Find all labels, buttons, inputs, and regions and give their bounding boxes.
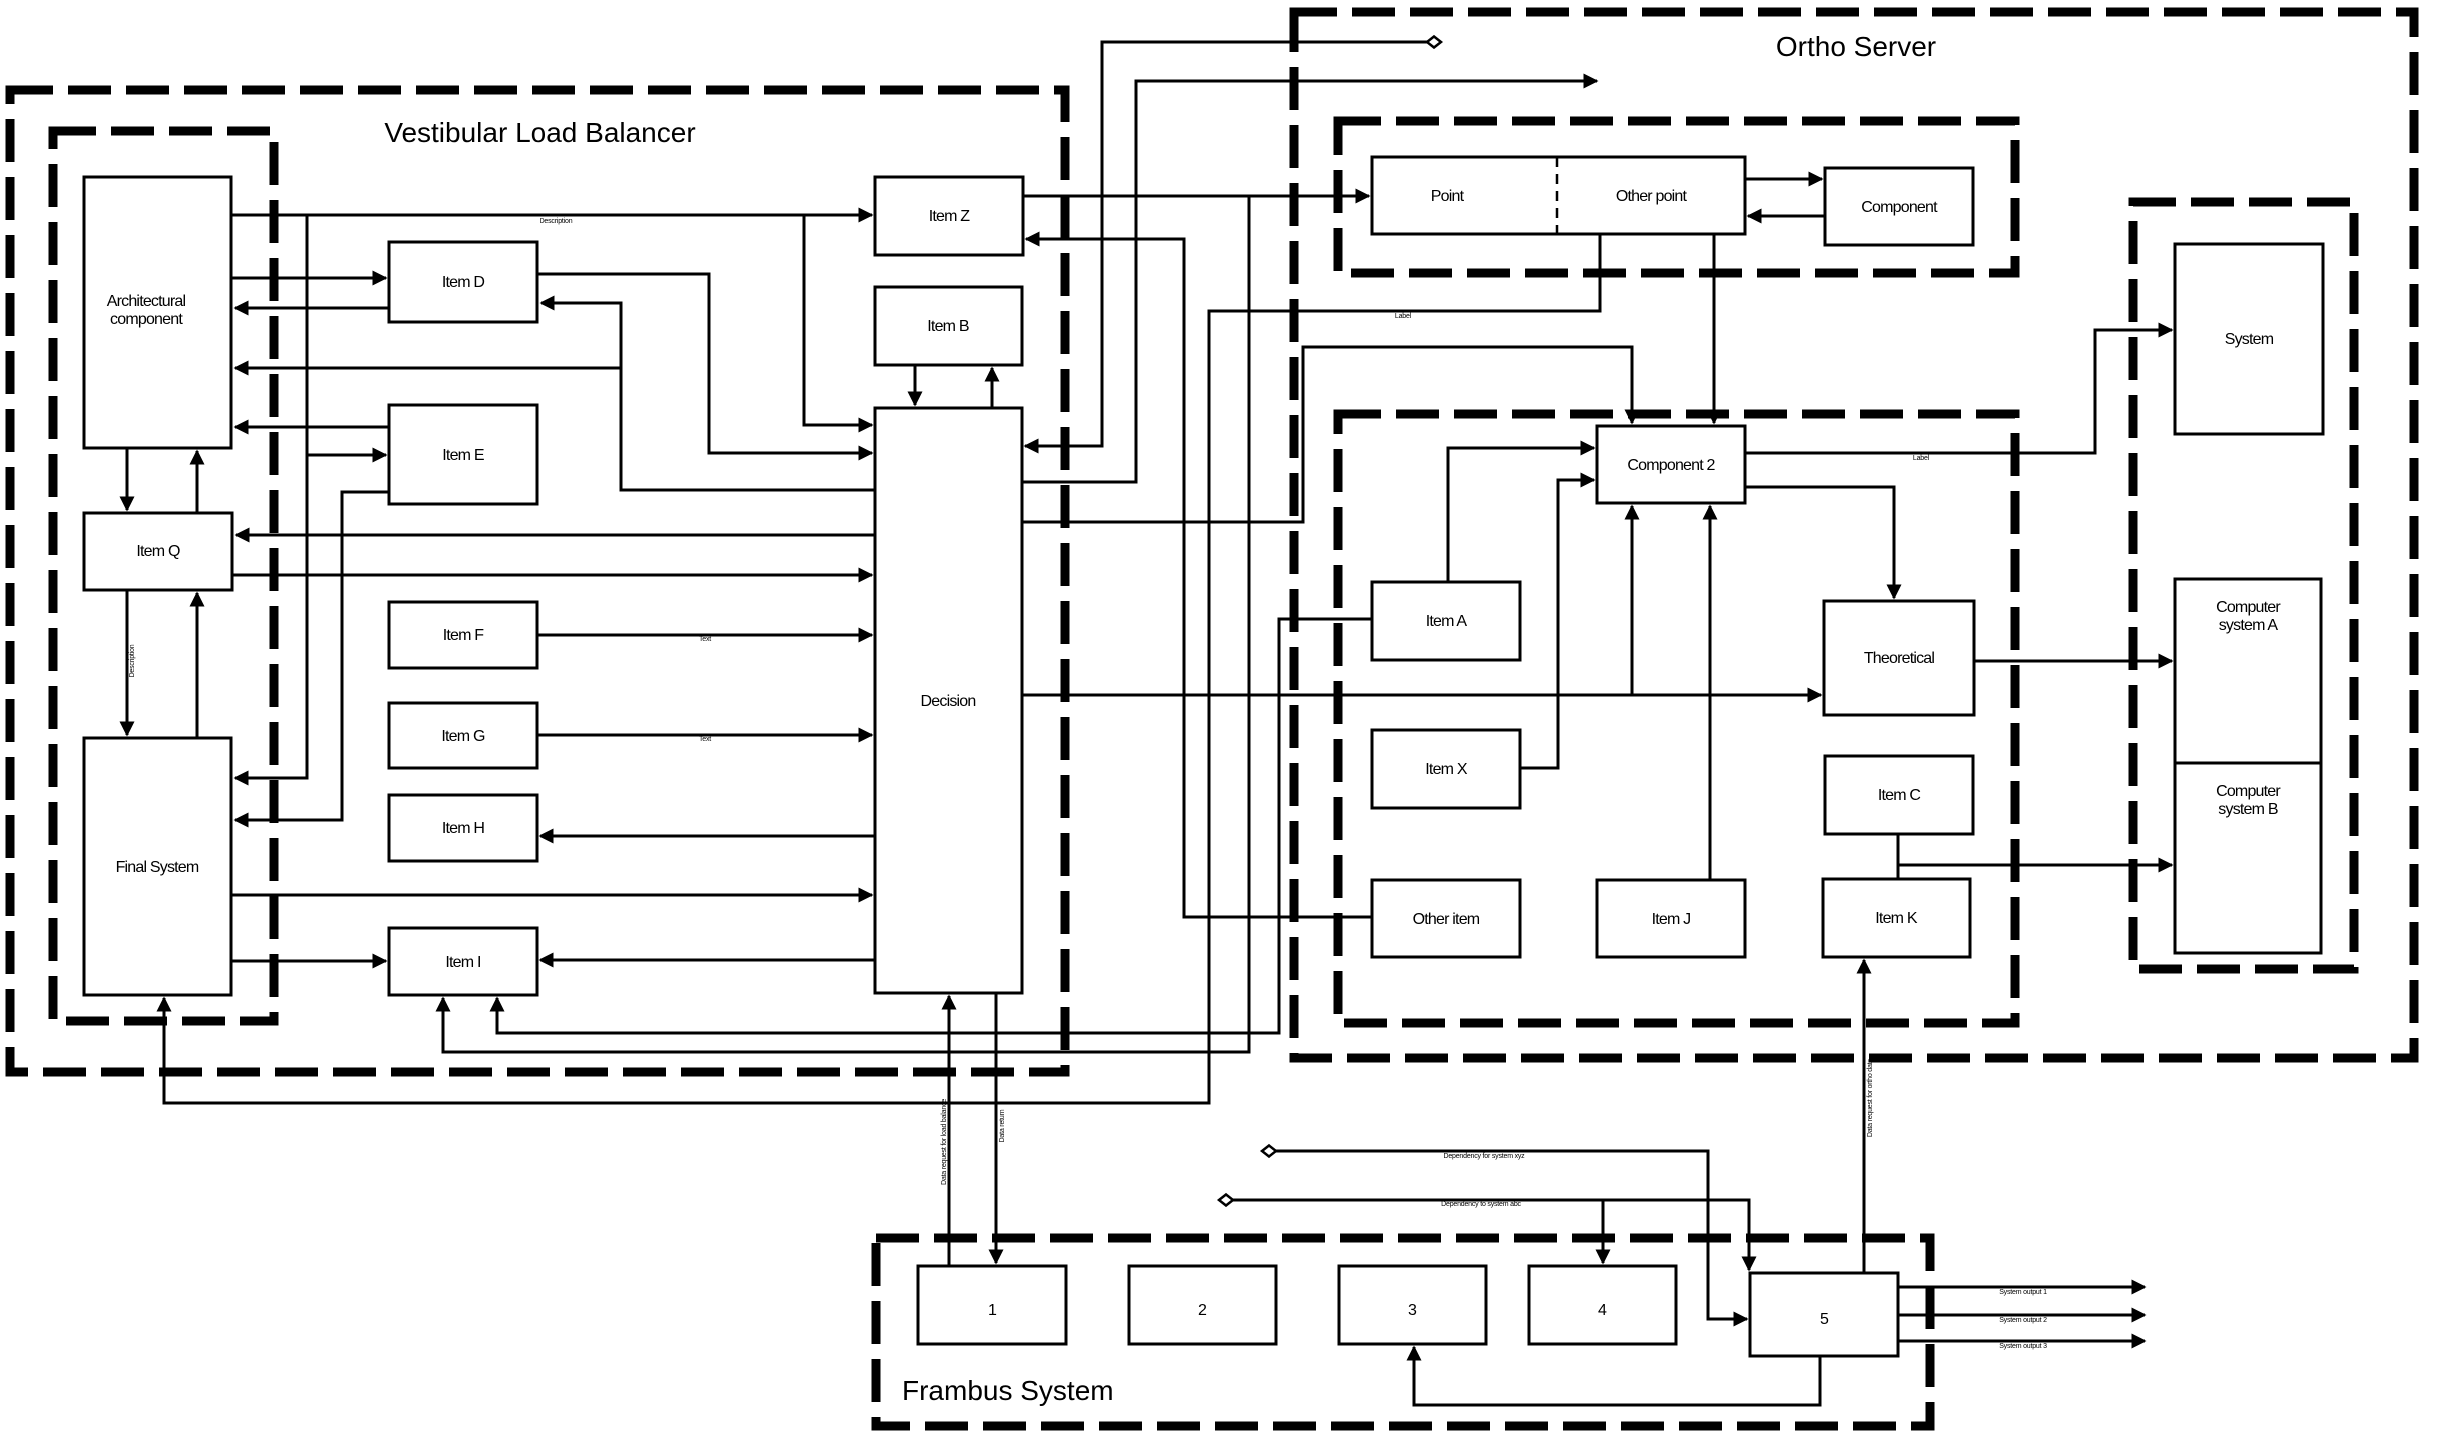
svg-text:Item Q: Item Q: [136, 543, 180, 560]
svg-text:Vestibular Load Balancer: Vestibular Load Balancer: [384, 117, 695, 148]
svg-text:Computer: Computer: [2216, 783, 2281, 800]
svg-text:Ortho Server: Ortho Server: [1776, 31, 1936, 62]
svg-text:System: System: [2225, 331, 2274, 348]
svg-text:System output 3: System output 3: [1999, 1343, 2047, 1350]
svg-text:Item X: Item X: [1425, 761, 1468, 778]
svg-text:Computer: Computer: [2216, 599, 2281, 616]
svg-text:Other item: Other item: [1413, 911, 1480, 928]
svg-text:Architectural: Architectural: [107, 293, 186, 310]
svg-text:Item K: Item K: [1875, 910, 1918, 927]
svg-text:Label: Label: [1395, 313, 1412, 320]
svg-text:Frambus System: Frambus System: [902, 1375, 1114, 1406]
svg-text:Final System: Final System: [116, 859, 199, 876]
svg-text:Item E: Item E: [442, 447, 484, 464]
svg-text:Item H: Item H: [442, 820, 485, 837]
svg-text:Description: Description: [129, 644, 136, 677]
svg-text:Item D: Item D: [442, 274, 485, 291]
svg-text:Item F: Item F: [443, 627, 485, 644]
svg-text:4: 4: [1598, 1302, 1607, 1319]
svg-text:Point: Point: [1431, 188, 1465, 205]
svg-text:Other point: Other point: [1616, 188, 1688, 205]
svg-text:Component: Component: [1861, 199, 1938, 216]
svg-text:System output 2: System output 2: [1999, 1317, 2047, 1324]
svg-text:Item C: Item C: [1878, 787, 1921, 804]
svg-text:Item G: Item G: [441, 728, 485, 745]
svg-text:Item Z: Item Z: [929, 208, 971, 225]
svg-text:Data request for load balance: Data request for load balance: [941, 1099, 948, 1185]
svg-text:3: 3: [1408, 1302, 1417, 1319]
svg-text:Data request for ortho data: Data request for ortho data: [1867, 1059, 1874, 1138]
svg-text:System output 1: System output 1: [1999, 1289, 2047, 1296]
svg-text:Text: Text: [699, 736, 711, 743]
svg-text:1: 1: [988, 1302, 997, 1319]
svg-text:system A: system A: [2219, 617, 2279, 634]
svg-text:Decision: Decision: [921, 693, 976, 710]
svg-text:Theoretical: Theoretical: [1864, 650, 1935, 667]
svg-text:Text: Text: [699, 636, 711, 643]
svg-text:2: 2: [1198, 1302, 1207, 1319]
svg-text:Description: Description: [540, 218, 573, 225]
svg-text:Item A: Item A: [1426, 613, 1468, 630]
svg-text:5: 5: [1820, 1311, 1829, 1328]
svg-text:system B: system B: [2218, 801, 2278, 818]
svg-text:Item J: Item J: [1652, 911, 1691, 928]
svg-text:Item B: Item B: [927, 318, 969, 335]
svg-text:Dependency to system abc: Dependency to system abc: [1441, 1201, 1521, 1208]
svg-text:Dependency for system xyz: Dependency for system xyz: [1444, 1153, 1526, 1160]
svg-text:Component 2: Component 2: [1627, 457, 1715, 474]
svg-text:Item I: Item I: [445, 954, 480, 971]
svg-text:component: component: [110, 311, 183, 328]
svg-text:Data return: Data return: [999, 1109, 1006, 1142]
svg-text:Label: Label: [1913, 455, 1930, 462]
